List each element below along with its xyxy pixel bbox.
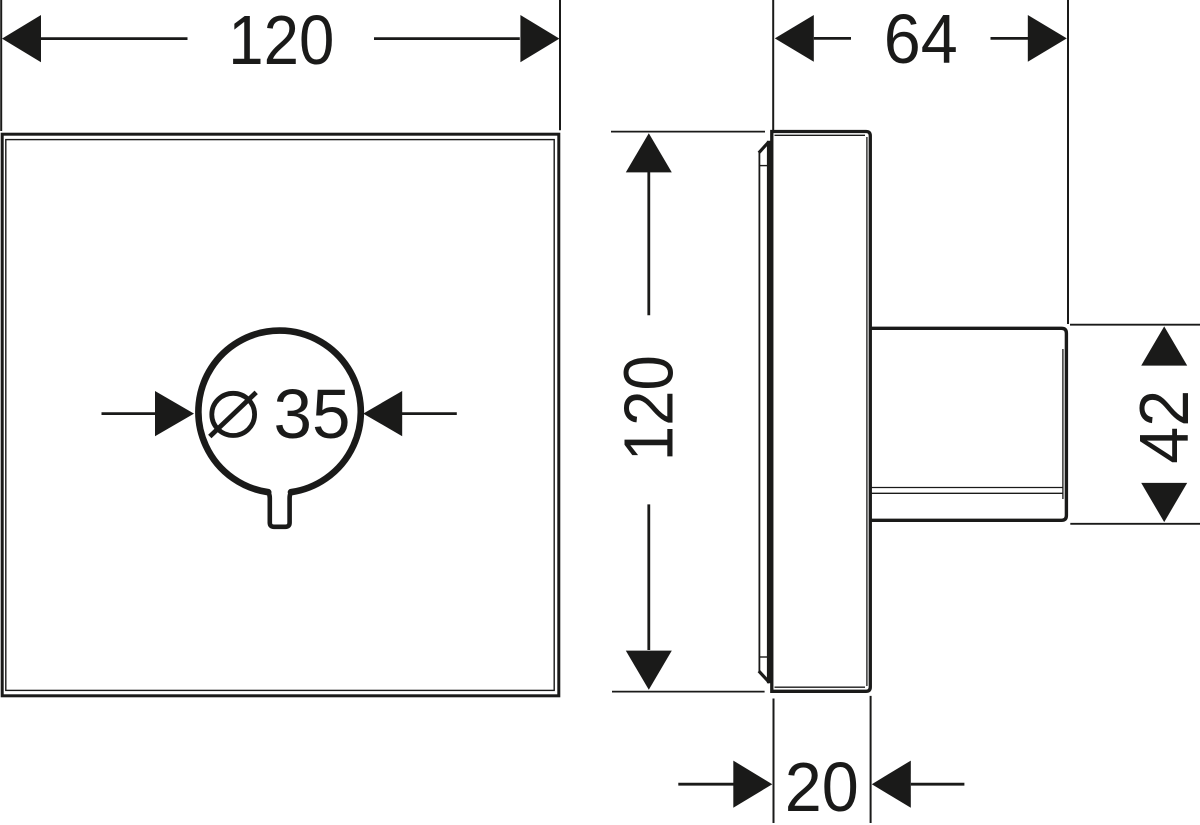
dim 42 top extension line <box>1070 324 1200 326</box>
dim 42 down arrowhead <box>1141 483 1187 522</box>
dim 120 vertical bottom arrowhead <box>626 651 672 690</box>
front plate inner edge line <box>6 140 554 691</box>
dim 42 bottom extension line <box>1070 523 1200 525</box>
dim 120 top right line <box>374 37 520 40</box>
dim 20 right tail <box>911 783 965 786</box>
dim 20 right arrowhead <box>872 761 911 808</box>
dim 64 left line <box>814 37 851 40</box>
dim 120 vertical top arrowhead <box>626 133 672 172</box>
dim Ø35 left tail <box>102 412 156 415</box>
dim 42 up arrowhead <box>1141 326 1187 365</box>
dim 120 top right arrowhead <box>520 15 559 62</box>
side view plate inner bottom line <box>775 686 866 688</box>
valve body block outline <box>870 328 1066 520</box>
svg-text:120: 120 <box>228 1 334 79</box>
wall flange left line <box>758 152 760 672</box>
svg-text:20: 20 <box>785 748 859 825</box>
dim 64 left arrowhead <box>775 15 814 62</box>
side view plate inner right line <box>866 137 868 686</box>
dim 20 left arrowhead <box>733 761 772 808</box>
dim 120 top left arrowhead <box>2 15 41 62</box>
svg-text:120: 120 <box>610 355 688 461</box>
dim 120 vertical top extension line <box>611 131 765 133</box>
wall flange bottom tick <box>760 656 769 658</box>
dim 120 vertical lower line <box>647 504 650 650</box>
valve body inner right line <box>1062 349 1064 499</box>
dim 120 top left line <box>41 37 188 40</box>
handle circle Ø35 <box>198 331 360 493</box>
svg-text:35: 35 <box>274 375 351 453</box>
dim 64 right extension line <box>1067 0 1069 324</box>
dim 20 left tail <box>678 783 734 786</box>
valve body cap parting line 2 <box>871 492 1063 494</box>
dim 120 vertical bottom extension line <box>612 691 765 693</box>
side view plate outline <box>772 132 871 692</box>
valve body cap parting line 1 <box>871 487 1063 489</box>
side view plate inner top line <box>775 134 866 136</box>
dim Ø35 right tail <box>402 412 457 415</box>
dim 120 vertical upper line <box>647 172 650 315</box>
handle tab notch <box>268 492 291 527</box>
wall flange top chamfer <box>759 142 769 153</box>
dim Ø35 left arrowhead <box>155 391 194 436</box>
svg-text:42: 42 <box>1125 390 1200 464</box>
dim Ø35 right arrowhead <box>363 391 402 436</box>
front plate outer square <box>2 134 559 696</box>
dim 20 right extension line <box>870 696 872 823</box>
dim 64 right arrowhead <box>1028 15 1067 62</box>
dim Ø35 label diameter symbol <box>212 393 255 435</box>
dim 64 left extension line <box>772 0 774 130</box>
wall flange right bar <box>767 141 771 683</box>
dim 64 right line <box>991 37 1029 40</box>
svg-text:64: 64 <box>884 0 958 78</box>
dim 20 left extension line <box>773 699 775 824</box>
wall flange bottom chamfer <box>759 671 770 683</box>
dim 120 top left extension line <box>0 0 2 131</box>
wall flange top tick <box>760 165 769 167</box>
dim 120 top right extension line <box>559 0 561 130</box>
